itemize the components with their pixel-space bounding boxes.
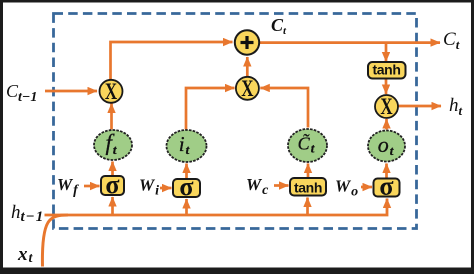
svg-text:tanh: tanh [294, 180, 322, 196]
svg-text:Wc: Wc [246, 175, 269, 198]
wire sigma3 up into ot [385, 164, 388, 179]
wire Wo into sigma3 [361, 186, 372, 189]
wire sigma2 up into it [185, 164, 188, 179]
svg-text:σ: σ [105, 170, 119, 199]
svg-text:σ: σ [379, 172, 393, 201]
wire sigma2 branch from bus [185, 199, 188, 214]
wire adder to Ct output [260, 41, 441, 44]
gate ot [368, 131, 405, 162]
svg-text:xt: xt [17, 244, 34, 266]
svg-text:Wi: Wi [139, 176, 159, 199]
sigma box 1 [101, 170, 124, 199]
wire X1 up and right into adder [111, 42, 233, 81]
outer frame right [471, 0, 474, 274]
wire X2 up into adder [246, 57, 249, 77]
svg-text:ht−1: ht−1 [11, 202, 44, 225]
svg-text:X: X [241, 76, 253, 101]
wire Ctilde up and left into X2 [260, 88, 308, 128]
sigma box 3 [374, 172, 400, 201]
svg-text:X: X [105, 79, 117, 104]
wire it up and right into X2 [186, 88, 235, 130]
wire ht-1 bottom bus to sigma3 [45, 199, 388, 216]
wire tanh2 branch from bus [306, 198, 309, 215]
LSTM cell dashed boundary [54, 14, 417, 229]
wire sigma1 branch from bus [111, 197, 114, 214]
outer frame left [0, 0, 3, 274]
svg-text:Wo: Wo [335, 177, 358, 200]
wire Wc into tanh2 [274, 184, 289, 187]
outer frame top [0, 0, 474, 3]
wire ft up into X1 [110, 104, 113, 130]
svg-text:Ct: Ct [271, 15, 287, 37]
outer frame bottom [0, 268, 474, 274]
wire xt curve joining bus [42, 215, 68, 267]
wire tanh2 up into Ctilde [307, 164, 310, 178]
sigma box 2 [173, 172, 200, 201]
svg-text:tanh: tanh [373, 62, 401, 78]
gate ft [94, 130, 132, 160]
wire Wi into sigma2 [160, 187, 172, 190]
multiplier X3 [375, 95, 398, 120]
wire ot up into X3 [385, 119, 388, 130]
gate it [167, 130, 207, 162]
wire tanh1 to X3 [385, 79, 388, 95]
multiplier X1 [100, 79, 123, 104]
wire X3 to ht output [398, 105, 442, 108]
svg-text:Ct: Ct [443, 29, 460, 52]
tanh box 2 [290, 178, 326, 196]
svg-text:σ: σ [179, 172, 193, 201]
multiplier X2 [236, 76, 259, 101]
tanh box 1 [368, 62, 406, 79]
gate Ctilde [288, 129, 327, 162]
svg-text:Wf: Wf [57, 175, 79, 198]
svg-text:ht: ht [449, 95, 463, 118]
wire sigma1 up into ft [111, 162, 114, 176]
wire branch down into tanh1 [385, 43, 388, 62]
wire Wf into sigma1 [84, 185, 100, 188]
adder plus [235, 30, 259, 54]
svg-text:Ct−1: Ct−1 [6, 81, 37, 105]
svg-text:X: X [380, 95, 392, 120]
wire Ct-1 into cell to X1 [45, 90, 97, 93]
